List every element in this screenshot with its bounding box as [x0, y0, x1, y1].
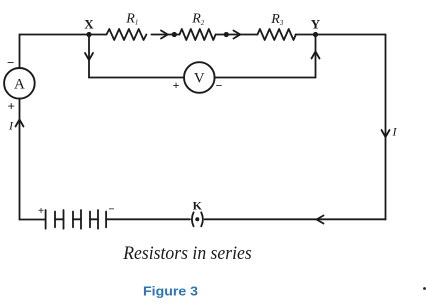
wire battery to key K: [106, 218, 190, 220]
node Y dot: [313, 32, 318, 37]
arrow current I down right wire: [382, 130, 390, 137]
key K plug dot: [195, 217, 199, 221]
svg-text:−: −: [216, 79, 223, 93]
svg-text:Resistors in series: Resistors in series: [122, 244, 251, 264]
node X dot: [86, 32, 91, 37]
svg-text:−: −: [108, 204, 114, 216]
ammeter A circle: [4, 68, 35, 99]
battery inter-cell connectors: [55, 218, 64, 220]
wire R1 to node: [151, 34, 174, 36]
wire voltmeter branch left horizontal: [89, 77, 184, 79]
wire key to bottom-right: [205, 218, 386, 220]
svg-text:−: −: [7, 55, 14, 70]
wire right vertical: [385, 35, 387, 220]
resistor R3: [258, 29, 296, 40]
svg-text:+: +: [7, 99, 14, 114]
arrow up below Y: [312, 52, 320, 59]
wire left vertical lower: [19, 99, 21, 220]
arrow after R1: [161, 31, 168, 39]
arrow left on bottom wire: [317, 216, 324, 224]
svg-text:Y: Y: [311, 16, 321, 31]
key K right contact arc: [201, 212, 203, 226]
junction dot: [224, 32, 229, 37]
wire bottom-left to battery: [20, 219, 46, 221]
wire top-left to R1: [20, 34, 107, 36]
period dot bottom right: [423, 287, 426, 290]
wire node to R2: [174, 34, 179, 36]
svg-text:A: A: [14, 76, 25, 92]
voltmeter V circle: [184, 62, 215, 93]
wire R3 to top-right: [296, 34, 386, 36]
battery cell plates: [45, 210, 47, 229]
svg-text:I: I: [392, 125, 398, 139]
resistor R1: [107, 29, 147, 40]
key K left contact arc: [192, 212, 194, 226]
svg-text:R2: R2: [191, 12, 205, 27]
wire R2 to node: [216, 34, 227, 36]
arrow down below X: [85, 53, 93, 60]
arrow current I up left wire: [16, 120, 24, 127]
wire Y down to voltmeter branch: [315, 35, 317, 78]
svg-text:I: I: [8, 119, 14, 133]
svg-text:K: K: [193, 199, 203, 213]
svg-text:+: +: [38, 205, 44, 217]
svg-text:R1: R1: [125, 11, 138, 26]
wire X down to voltmeter branch: [88, 35, 90, 78]
wire node to R3: [226, 34, 257, 36]
wire voltmeter branch right horizontal: [215, 77, 316, 79]
arrow after node: [234, 31, 241, 39]
wire left vertical upper: [19, 35, 21, 69]
svg-text:R3: R3: [270, 12, 284, 27]
svg-text:Figure 3: Figure 3: [143, 284, 198, 299]
resistor R2: [180, 29, 216, 40]
svg-text:+: +: [173, 78, 180, 92]
junction dot: [172, 32, 177, 37]
svg-text:X: X: [84, 16, 94, 31]
svg-text:V: V: [194, 70, 205, 86]
